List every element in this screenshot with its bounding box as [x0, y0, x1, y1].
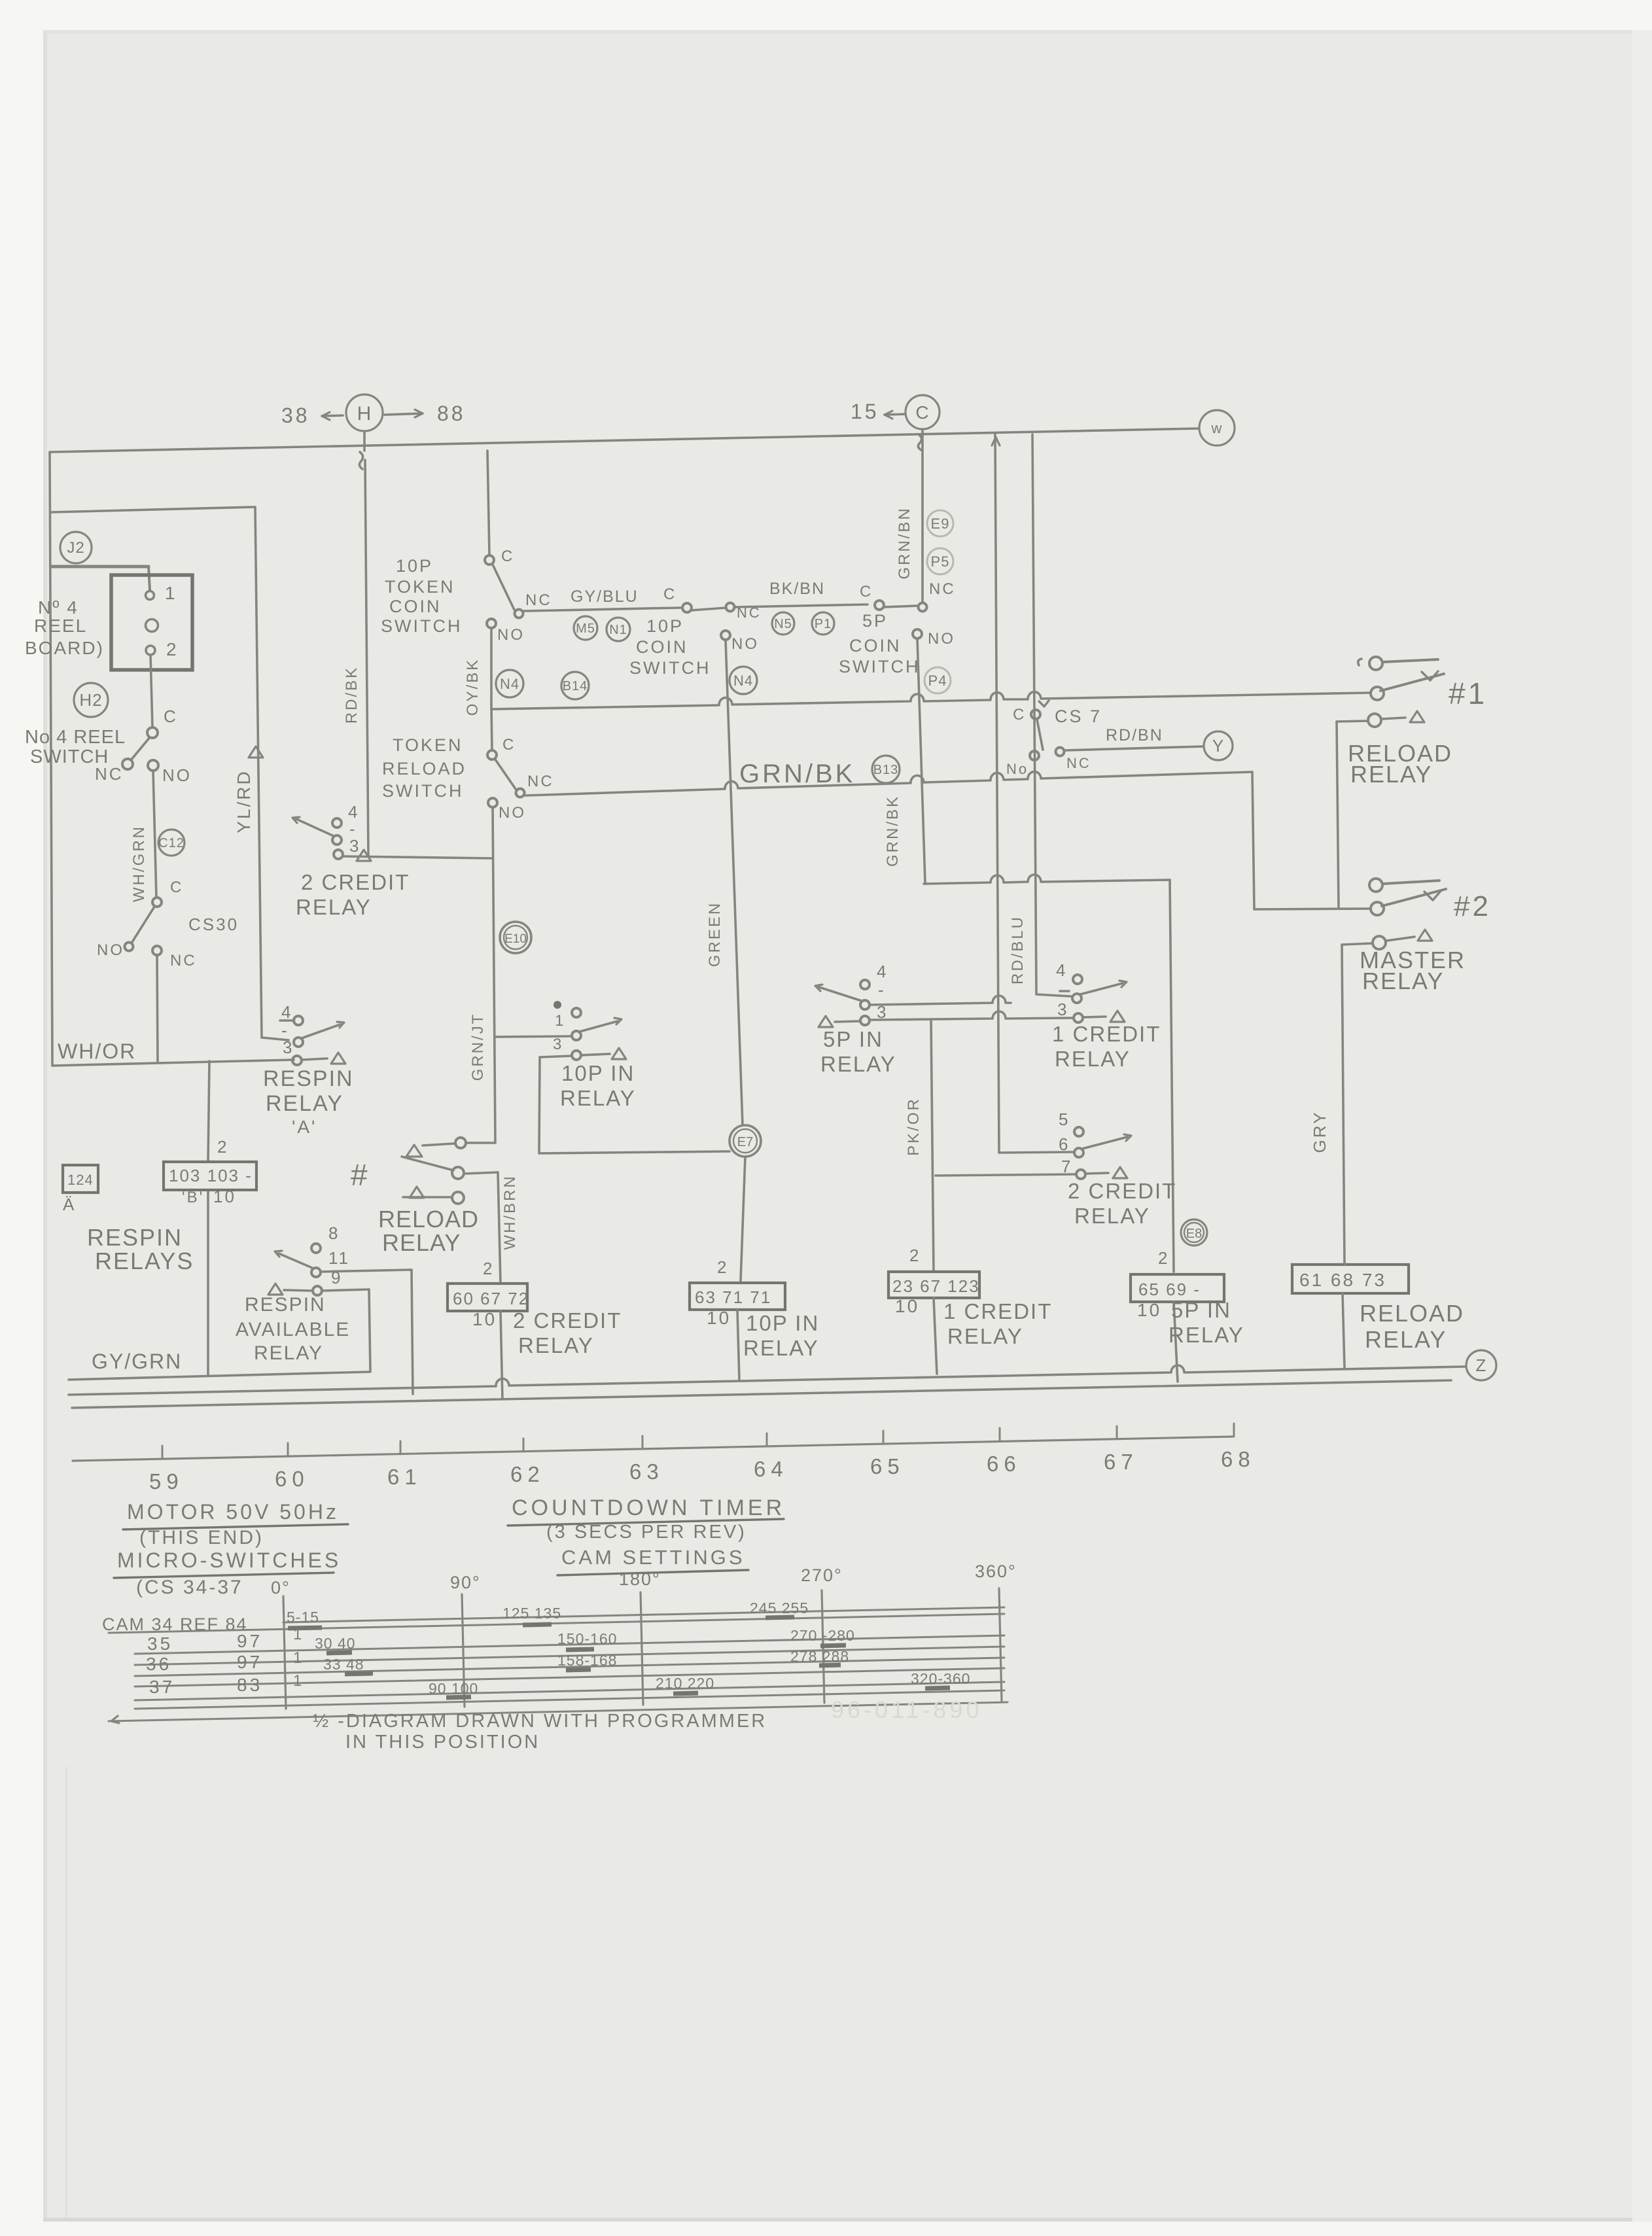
- svg-text:90 100: 90 100: [429, 1680, 478, 1697]
- svg-text:TOKEN: TOKEN: [385, 577, 455, 597]
- svg-text:NO: NO: [499, 804, 526, 822]
- svg-text:GRY: GRY: [1310, 1111, 1329, 1153]
- svg-text:Ä: Ä: [63, 1195, 76, 1214]
- svg-text:6: 6: [1059, 1134, 1070, 1154]
- svg-text:2: 2: [217, 1137, 228, 1157]
- svg-text:11: 11: [328, 1248, 350, 1268]
- svg-text:P5: P5: [931, 553, 950, 570]
- svg-text:320-360: 320-360: [911, 1670, 970, 1687]
- svg-text:'A': 'A': [292, 1117, 317, 1137]
- svg-text:245 255: 245 255: [750, 1599, 809, 1616]
- svg-text:E9: E9: [931, 515, 950, 532]
- svg-text:5P IN: 5P IN: [1171, 1298, 1231, 1322]
- svg-text:33 48: 33 48: [323, 1656, 364, 1673]
- svg-text:RELAY: RELAY: [382, 1229, 461, 1256]
- svg-text:REEL: REEL: [34, 616, 87, 636]
- svg-text:4: 4: [281, 1002, 292, 1022]
- svg-text:124: 124: [67, 1172, 94, 1188]
- svg-text:RELAY: RELAY: [518, 1333, 594, 1357]
- svg-text:P1: P1: [815, 617, 832, 631]
- svg-text:C: C: [502, 736, 516, 754]
- svg-text:Nº 4: Nº 4: [38, 597, 79, 618]
- svg-text:2 CREDIT: 2 CREDIT: [301, 870, 410, 894]
- svg-text:N5: N5: [774, 617, 792, 631]
- svg-text:MICRO-SWITCHES: MICRO-SWITCHES: [117, 1548, 341, 1572]
- svg-text:E7: E7: [737, 1135, 753, 1149]
- svg-text:AVAILABLE: AVAILABLE: [236, 1319, 350, 1340]
- svg-text:E8: E8: [1186, 1227, 1202, 1241]
- svg-text:210 220: 210 220: [656, 1675, 714, 1692]
- svg-text:63: 63: [629, 1459, 664, 1484]
- svg-text:NC: NC: [929, 580, 956, 598]
- svg-text:OY/BK: OY/BK: [464, 658, 482, 716]
- svg-text:Y: Y: [1212, 736, 1224, 756]
- svg-text:BOARD): BOARD): [25, 638, 104, 658]
- svg-text:RELAY: RELAY: [1350, 761, 1432, 788]
- svg-text:7: 7: [1061, 1157, 1072, 1176]
- svg-text:10: 10: [1137, 1300, 1161, 1320]
- svg-text:#1: #1: [1449, 676, 1487, 710]
- svg-text:GY/GRN: GY/GRN: [92, 1350, 182, 1373]
- svg-text:RELAY: RELAY: [820, 1052, 896, 1076]
- svg-text:½ -DIAGRAM DRAWN WITH PROG: ½ -DIAGRAM DRAWN WITH PROGRAMMER: [313, 1711, 767, 1732]
- svg-text:RELAY: RELAY: [1055, 1047, 1131, 1071]
- svg-text:COUNTDOWN TIMER: COUNTDOWN TIMER: [512, 1495, 785, 1520]
- svg-text:(3 SECS PER REV): (3 SECS PER REV): [546, 1522, 747, 1543]
- svg-text:B13: B13: [873, 763, 899, 777]
- svg-text:RELAY: RELAY: [560, 1086, 636, 1110]
- svg-text:CS30: CS30: [188, 915, 239, 934]
- svg-text:GY/BLU: GY/BLU: [571, 587, 639, 606]
- svg-text:WH/BRN: WH/BRN: [501, 1174, 519, 1249]
- svg-text:5-15: 5-15: [287, 1609, 319, 1626]
- svg-text:C: C: [501, 548, 514, 565]
- svg-text:RELAY: RELAY: [1365, 1326, 1447, 1353]
- svg-text:1: 1: [293, 1649, 304, 1667]
- svg-text:RELAY: RELAY: [1362, 968, 1444, 994]
- svg-text:65: 65: [870, 1454, 905, 1478]
- svg-text:2: 2: [1158, 1248, 1169, 1268]
- svg-text:64: 64: [754, 1457, 788, 1481]
- svg-text:66: 66: [987, 1452, 1021, 1476]
- svg-text:TOKEN: TOKEN: [393, 735, 463, 755]
- svg-text:CAM 34 REF 84: CAM 34 REF 84: [102, 1615, 248, 1634]
- svg-text:1: 1: [165, 583, 177, 603]
- svg-text:1: 1: [555, 1012, 565, 1030]
- svg-text:NO: NO: [97, 941, 124, 959]
- svg-text:C12: C12: [158, 836, 185, 850]
- svg-text:10P: 10P: [396, 556, 433, 576]
- svg-text:5P: 5P: [862, 611, 888, 631]
- svg-text:M5: M5: [576, 621, 595, 636]
- svg-text:36: 36: [146, 1654, 171, 1674]
- svg-text:CAM SETTINGS: CAM SETTINGS: [561, 1546, 745, 1569]
- svg-text:RELAY: RELAY: [1169, 1323, 1244, 1347]
- svg-text:RELOAD: RELOAD: [1360, 1300, 1464, 1327]
- svg-text:NC: NC: [170, 952, 197, 970]
- svg-text:RD/BK: RD/BK: [343, 666, 360, 724]
- svg-text:10: 10: [707, 1308, 731, 1328]
- svg-text:2: 2: [166, 639, 179, 659]
- svg-text:30 40: 30 40: [315, 1635, 356, 1652]
- svg-text:1: 1: [293, 1626, 304, 1643]
- svg-text:10P: 10P: [646, 616, 684, 636]
- svg-text:RELOAD: RELOAD: [378, 1206, 479, 1232]
- svg-text:YL/RD: YL/RD: [234, 769, 254, 833]
- svg-text:NC: NC: [527, 773, 554, 790]
- svg-text:2: 2: [483, 1259, 494, 1278]
- svg-text:RELAY: RELAY: [296, 895, 372, 919]
- svg-text:(THIS END): (THIS END): [139, 1527, 264, 1548]
- svg-text:RD/BN: RD/BN: [1106, 726, 1163, 744]
- svg-text:0°: 0°: [271, 1578, 290, 1598]
- svg-text:BK/BN: BK/BN: [769, 580, 825, 598]
- svg-text:C: C: [170, 879, 183, 896]
- svg-text:NO: NO: [731, 635, 759, 653]
- svg-text:H2: H2: [79, 690, 102, 710]
- svg-text:125 135: 125 135: [502, 1605, 561, 1622]
- svg-text:RELAY: RELAY: [266, 1091, 343, 1116]
- svg-text:37: 37: [149, 1677, 175, 1697]
- svg-text:'B': 'B': [182, 1189, 204, 1206]
- svg-text:C: C: [860, 583, 873, 601]
- svg-text:GRN/JT: GRN/JT: [469, 1013, 487, 1081]
- svg-text:3: 3: [1057, 1000, 1068, 1019]
- svg-text:Z: Z: [1476, 1355, 1487, 1375]
- svg-text:3: 3: [349, 836, 360, 856]
- svg-text:NO: NO: [162, 765, 192, 785]
- svg-text:N4: N4: [500, 676, 519, 692]
- svg-text:180°: 180°: [619, 1569, 661, 1589]
- svg-text:No: No: [1006, 761, 1028, 777]
- svg-text:2: 2: [909, 1246, 921, 1265]
- svg-text:GRN/BK: GRN/BK: [739, 760, 855, 788]
- svg-text:2 CREDIT: 2 CREDIT: [1068, 1179, 1176, 1203]
- svg-text:10: 10: [895, 1296, 919, 1316]
- svg-text:GRN/BN: GRN/BN: [896, 506, 913, 579]
- svg-text:270 -280: 270 -280: [790, 1627, 855, 1644]
- svg-text:63 71 71: 63 71 71: [695, 1287, 771, 1307]
- svg-text:4: 4: [1056, 960, 1067, 980]
- svg-text:88: 88: [437, 402, 466, 425]
- svg-text:P4: P4: [928, 673, 947, 689]
- svg-text:23 67 123: 23 67 123: [892, 1276, 980, 1296]
- svg-text:COIN: COIN: [636, 637, 688, 657]
- svg-text:#: #: [351, 1158, 368, 1192]
- svg-text:90°: 90°: [450, 1573, 481, 1592]
- svg-text:CS 7: CS 7: [1055, 707, 1102, 726]
- svg-text:NO: NO: [928, 630, 955, 648]
- svg-text:2: 2: [717, 1257, 728, 1277]
- svg-text:RELAY: RELAY: [1074, 1204, 1150, 1228]
- svg-text:10: 10: [213, 1187, 236, 1206]
- svg-text:RELAY: RELAY: [254, 1342, 323, 1364]
- svg-text:103 103 -: 103 103 -: [169, 1166, 253, 1185]
- svg-text:1 CREDIT: 1 CREDIT: [943, 1299, 1052, 1323]
- svg-text:E10: E10: [504, 932, 527, 946]
- svg-text:3: 3: [877, 1002, 888, 1022]
- svg-text:360°: 360°: [975, 1562, 1017, 1581]
- svg-text:278 288: 278 288: [790, 1648, 849, 1665]
- svg-text:38: 38: [281, 404, 310, 427]
- svg-text:COIN: COIN: [389, 597, 442, 616]
- svg-text:#2: #2: [1454, 890, 1491, 922]
- svg-text:59: 59: [149, 1469, 184, 1494]
- svg-text:5P IN: 5P IN: [823, 1027, 883, 1051]
- svg-text:68: 68: [1221, 1447, 1256, 1471]
- svg-text:10P IN: 10P IN: [746, 1311, 819, 1335]
- svg-text:C: C: [915, 402, 929, 423]
- svg-text:RESPIN: RESPIN: [87, 1224, 183, 1251]
- svg-text:WH/OR: WH/OR: [58, 1039, 136, 1063]
- svg-text:PK/OR: PK/OR: [905, 1097, 923, 1156]
- svg-text:(CS 34-37: (CS 34-37: [136, 1577, 243, 1598]
- svg-text:COIN: COIN: [849, 636, 902, 655]
- svg-text:NC: NC: [95, 764, 124, 784]
- svg-text:8: 8: [328, 1223, 340, 1243]
- svg-text:150-160: 150-160: [557, 1630, 617, 1647]
- svg-text:SWITCH: SWITCH: [629, 658, 711, 678]
- svg-text:65 69 -: 65 69 -: [1138, 1280, 1201, 1299]
- svg-text:RESPIN: RESPIN: [245, 1294, 326, 1316]
- svg-text:C: C: [663, 585, 677, 603]
- svg-text:10P IN: 10P IN: [561, 1061, 635, 1085]
- svg-text:NO: NO: [497, 626, 525, 644]
- svg-text:SWITCH: SWITCH: [382, 781, 463, 801]
- svg-text:15: 15: [851, 400, 879, 423]
- svg-text:67: 67: [1104, 1450, 1138, 1474]
- svg-text:WH/GRN: WH/GRN: [130, 825, 148, 902]
- svg-text:60 67 72: 60 67 72: [453, 1289, 529, 1308]
- svg-text:97: 97: [237, 1652, 262, 1672]
- svg-text:NC: NC: [1066, 755, 1091, 771]
- svg-text:1: 1: [293, 1672, 304, 1690]
- svg-text:RELAY: RELAY: [743, 1336, 819, 1360]
- svg-text:61 68 73: 61 68 73: [1299, 1270, 1386, 1290]
- svg-text:96-011-890: 96-011-890: [831, 1696, 982, 1723]
- svg-text:RESPIN: RESPIN: [263, 1066, 354, 1091]
- svg-text:GREEN: GREEN: [706, 901, 724, 967]
- svg-text:H: H: [357, 403, 372, 425]
- svg-text:C: C: [1013, 706, 1026, 724]
- svg-text:4: 4: [877, 962, 888, 981]
- svg-text:B14: B14: [563, 679, 588, 693]
- svg-text:SWITCH: SWITCH: [839, 657, 920, 676]
- svg-text:w: w: [1211, 420, 1223, 436]
- svg-text:3: 3: [283, 1038, 294, 1057]
- svg-text:60: 60: [275, 1467, 309, 1491]
- svg-text:62: 62: [510, 1462, 545, 1486]
- svg-text:97: 97: [237, 1631, 262, 1651]
- svg-text:158-168: 158-168: [557, 1652, 617, 1669]
- svg-text:N4: N4: [733, 673, 753, 689]
- svg-text:RELOAD: RELOAD: [382, 759, 466, 778]
- svg-text:5: 5: [1059, 1109, 1070, 1129]
- svg-text:35: 35: [147, 1633, 173, 1654]
- svg-text:2 CREDIT: 2 CREDIT: [513, 1308, 622, 1333]
- svg-text:-: -: [878, 980, 886, 1000]
- svg-text:RELAY: RELAY: [947, 1324, 1023, 1348]
- svg-text:N1: N1: [609, 623, 627, 637]
- svg-text:1 CREDIT: 1 CREDIT: [1052, 1022, 1161, 1046]
- svg-text:61: 61: [387, 1465, 422, 1489]
- svg-text:10: 10: [472, 1309, 497, 1329]
- svg-text:270°: 270°: [801, 1565, 843, 1585]
- svg-text:3: 3: [553, 1036, 563, 1053]
- svg-text:SWITCH: SWITCH: [381, 616, 462, 636]
- svg-text:No 4 REEL: No 4 REEL: [25, 727, 126, 748]
- svg-text:RELAYS: RELAYS: [95, 1248, 194, 1274]
- svg-text:IN THIS POSITION: IN THIS POSITION: [345, 1732, 540, 1753]
- svg-text:J2: J2: [67, 539, 84, 557]
- svg-text:C: C: [164, 707, 178, 726]
- svg-text:83: 83: [237, 1675, 262, 1695]
- svg-text:NC: NC: [525, 591, 552, 609]
- svg-text:RD/BLU: RD/BLU: [1009, 915, 1027, 985]
- svg-text:GRN/BK: GRN/BK: [884, 795, 902, 867]
- svg-text:MOTOR 50V 50Hz: MOTOR 50V 50Hz: [127, 1500, 339, 1524]
